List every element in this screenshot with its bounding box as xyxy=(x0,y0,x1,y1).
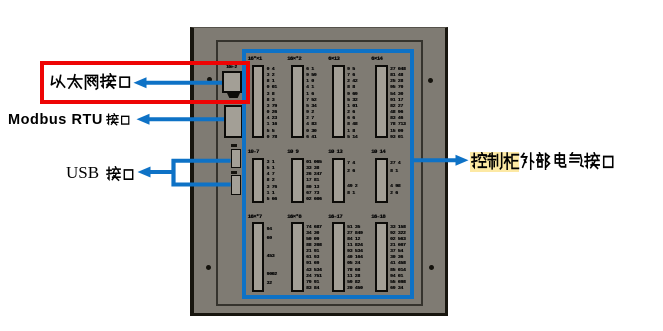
terminal block XT4 header label xyxy=(371,55,382,62)
ethernet connector clip xyxy=(227,93,240,98)
arrow: ethernet port to label xyxy=(145,81,223,85)
red highlight rectangle (ethernet) xyxy=(40,61,250,104)
label: Modbus RTU interface xyxy=(8,112,103,128)
control cabinet panel body xyxy=(190,27,448,316)
screw dot bottom-right xyxy=(429,265,434,270)
terminal block XT1 header label xyxy=(248,55,262,62)
terminal block XT10 header label xyxy=(287,213,301,220)
terminal block XT6 connector xyxy=(291,158,304,203)
terminal block XT5 header label xyxy=(248,148,259,155)
terminal block XT3 connector xyxy=(332,65,345,139)
ethernet RJ45 connector xyxy=(222,71,242,93)
label: ethernet interface (chinese) xyxy=(50,73,133,91)
terminal block XT7 pin number labels xyxy=(347,160,357,198)
terminal block XT6 pin number labels xyxy=(306,160,321,203)
terminal block XT2 pin number labels xyxy=(306,67,316,141)
terminal block XT3 header label xyxy=(328,55,339,62)
arrow: modbus port to label xyxy=(148,117,225,121)
terminal block XT11 connector xyxy=(332,222,345,292)
usb bracket lower line xyxy=(172,183,231,187)
terminal block XT2 header label xyxy=(287,55,301,62)
terminal block XT12 pin number labels xyxy=(390,225,405,293)
screw dot top-left xyxy=(207,77,212,82)
terminal block XT4 connector xyxy=(375,65,388,139)
Modbus RTU connector xyxy=(224,105,243,138)
terminal block XT2 connector xyxy=(291,65,304,139)
terminal block XT1 pin number labels xyxy=(267,67,277,141)
terminal block XT6 header label xyxy=(287,148,298,155)
terminal block XT9 pin number labels xyxy=(267,225,277,288)
terminal block XT5 pin number labels xyxy=(267,160,277,203)
terminal block XT7 header label xyxy=(328,148,342,155)
terminal block XT3 pin number labels xyxy=(347,67,357,141)
blue highlight rectangle (external electrical interfaces area) xyxy=(242,49,414,299)
USB port 2 tiny label xyxy=(231,171,237,175)
ethernet port label text (tiny) xyxy=(226,65,236,70)
terminal block XT12 connector xyxy=(375,222,388,292)
terminal block XT9 connector xyxy=(252,222,265,292)
arrow: usb ports to label xyxy=(149,170,176,174)
terminal block XT10 pin number labels xyxy=(306,225,321,293)
terminal block XT7 connector xyxy=(332,158,345,203)
yellow highlight behind 控制柜 xyxy=(470,152,520,173)
usb bracket upper line xyxy=(172,159,231,163)
terminal block XT9 header label xyxy=(248,213,262,220)
terminal block XT5 connector xyxy=(252,158,265,203)
terminal block XT10 connector xyxy=(291,222,304,292)
terminal block XT8 header label xyxy=(371,148,385,155)
arrow: blue area to right label xyxy=(412,158,458,162)
screw dot top-right xyxy=(428,78,433,83)
USB port 1 tiny label xyxy=(231,144,237,148)
terminal block XT8 connector xyxy=(375,158,388,203)
panel inner inset rectangle xyxy=(216,40,423,306)
USB port 1 connector xyxy=(231,149,242,169)
terminal block XT11 header label xyxy=(328,213,342,220)
usb bracket vertical xyxy=(171,159,175,187)
terminal block XT11 pin number labels xyxy=(347,225,362,293)
terminal block XT8 pin number labels xyxy=(390,160,400,198)
screw dot bottom-left xyxy=(206,265,211,270)
label: control cabinet external electrical interfaces (chinese) xyxy=(471,152,616,171)
terminal block XT4 pin number labels xyxy=(390,67,405,141)
terminal block XT1 connector xyxy=(252,65,265,139)
USB port 2 connector xyxy=(231,175,242,195)
label: USB interface xyxy=(66,163,99,183)
terminal block XT12 header label xyxy=(371,213,385,220)
